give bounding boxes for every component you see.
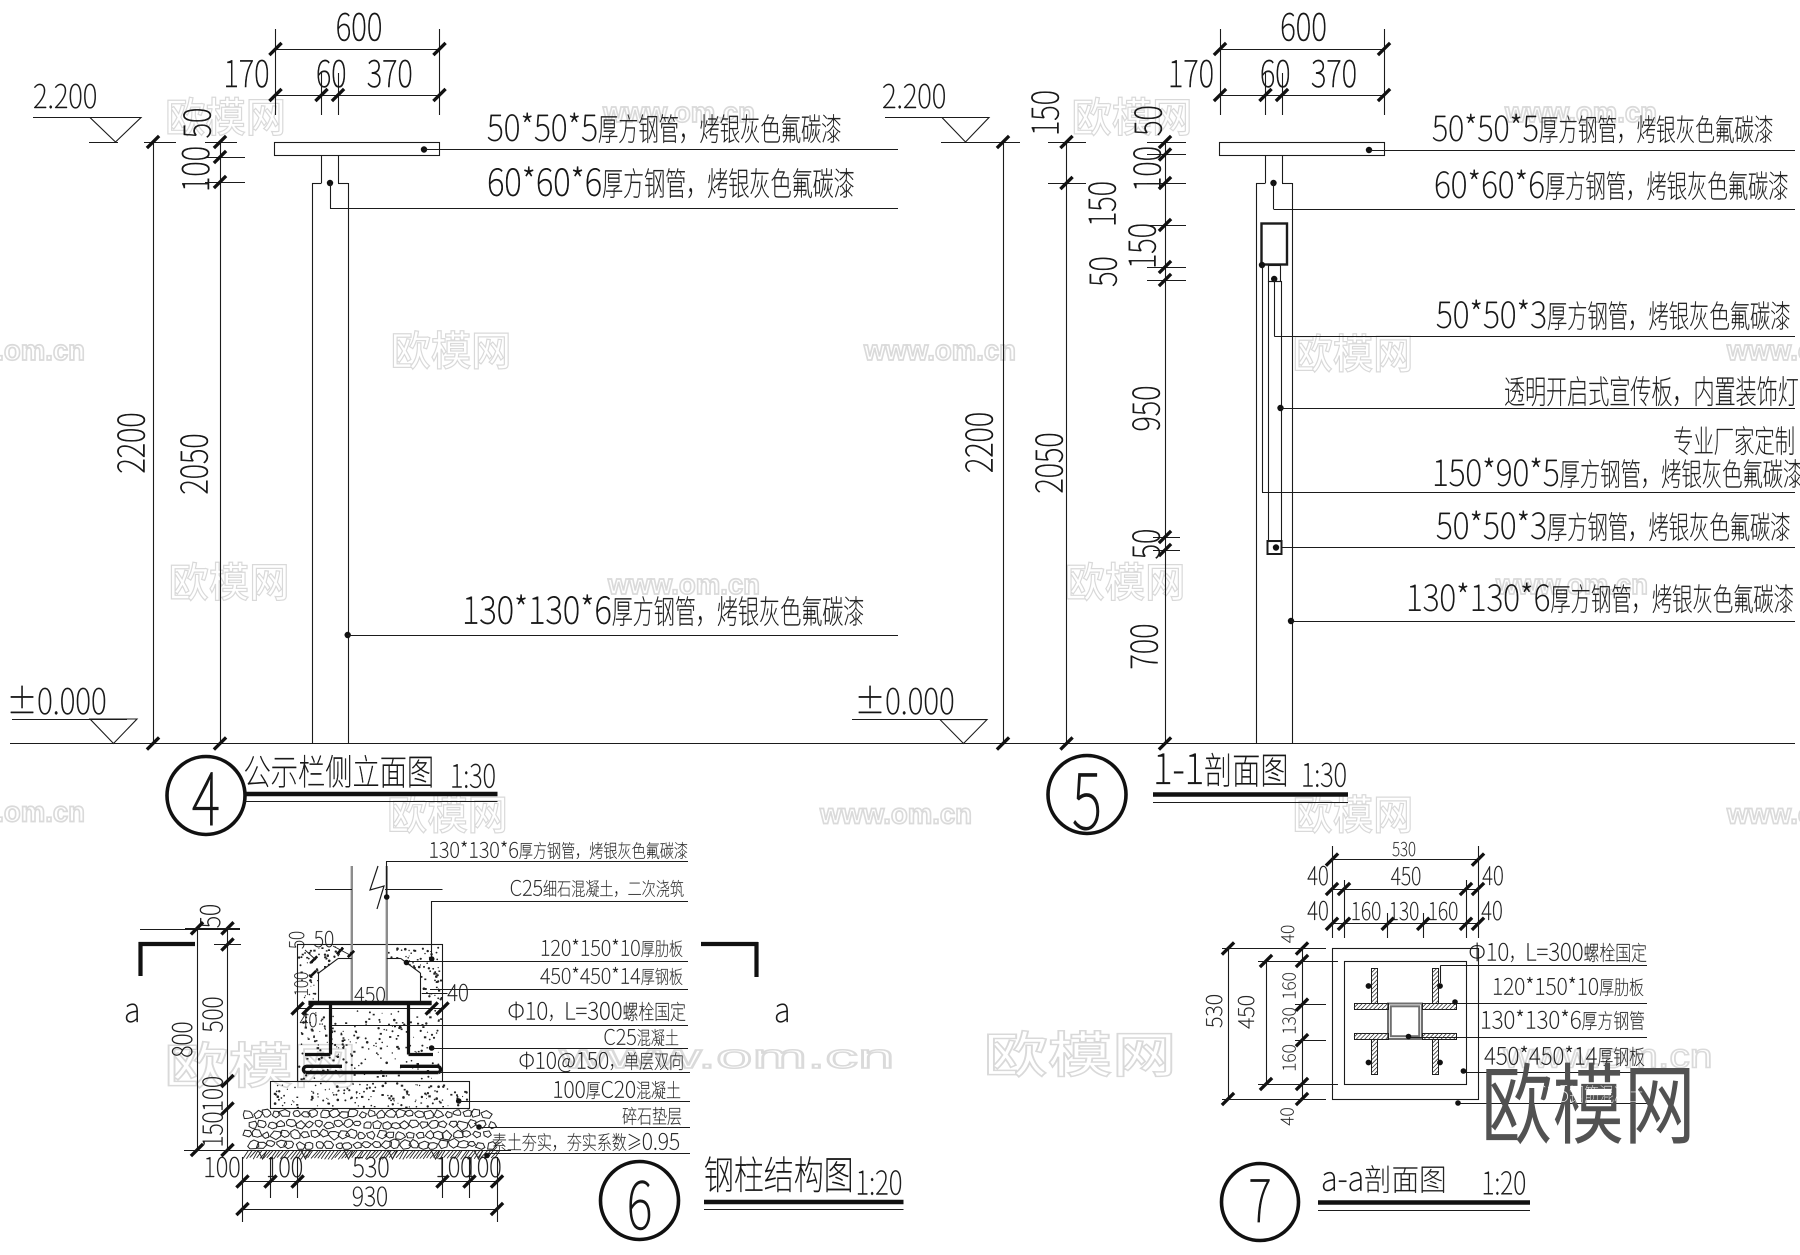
svg-text:www.om.cn: www.om.cn — [0, 335, 85, 367]
svg-text:www.om.cn: www.om.cn — [819, 799, 972, 831]
svg-text:www.om.cn: www.om.cn — [602, 97, 755, 129]
svg-text:www.om.cn: www.om.cn — [607, 569, 760, 601]
svg-text:www.om.cn: www.om.cn — [1504, 97, 1657, 129]
svg-text:www.om.cn: www.om.cn — [1726, 335, 1800, 367]
svg-text:www.om.cn: www.om.cn — [0, 797, 85, 829]
svg-text:www.om.cn: www.om.cn — [863, 335, 1016, 367]
svg-text:www.om.cn: www.om.cn — [1726, 799, 1800, 831]
